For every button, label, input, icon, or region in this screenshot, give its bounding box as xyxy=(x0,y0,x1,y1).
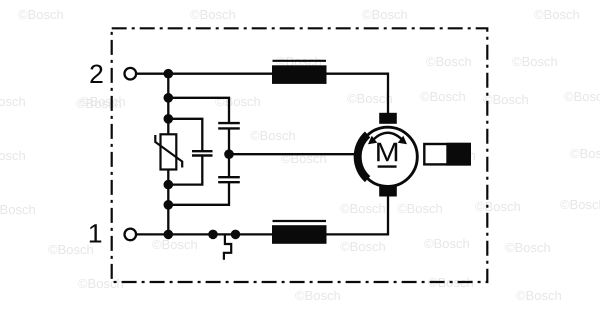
junction node C1 lower link xyxy=(164,180,174,190)
motor letter M xyxy=(377,143,397,162)
chassis step contact xyxy=(224,234,231,259)
wire: upper link to capacitor C1 xyxy=(168,119,202,151)
junction node suppression tap xyxy=(224,149,234,159)
wire: capacitor column mid segment xyxy=(228,128,230,177)
junction node upper cap link xyxy=(164,93,174,103)
choke L2 body xyxy=(272,225,327,244)
motor rotation arrow xyxy=(368,133,407,144)
terminal 2 pin circle xyxy=(125,68,137,80)
terminal label 1 xyxy=(90,224,101,242)
terminal label 2 xyxy=(90,65,102,84)
motor brush bottom xyxy=(379,185,397,196)
junction node on top rail xyxy=(164,69,174,79)
wire: left vertical branch xyxy=(167,74,169,235)
choke L1 body xyxy=(272,65,327,84)
junction node chassis left xyxy=(208,230,218,240)
wire: bottom rail from terminal 1 to motor corner xyxy=(137,196,388,234)
motor magnet segment xyxy=(358,135,368,180)
junction node lower cap link xyxy=(164,200,174,210)
motor underline xyxy=(378,165,397,167)
junction node chassis right xyxy=(231,230,241,240)
wire: lower link from capacitor C1 xyxy=(168,156,202,185)
choke L1 core line xyxy=(273,60,327,62)
wire: upper link to capacitor column xyxy=(168,98,229,123)
wire: lower link to capacitor column xyxy=(168,182,229,205)
motor M circle xyxy=(358,127,417,186)
junction node C1 upper link xyxy=(164,114,174,124)
capacitor C1 xyxy=(192,151,213,155)
junction node on bottom rail left xyxy=(164,230,174,240)
connector plug symbol xyxy=(424,143,470,166)
terminal 1 pin circle xyxy=(125,229,137,241)
wire: top rail from terminal 2 to motor corner xyxy=(137,74,388,113)
wire: suppression tap to motor housing xyxy=(229,153,357,155)
varistor R1 diagonal stroke xyxy=(155,135,182,168)
capacitor C2 xyxy=(218,123,240,128)
motor brush top xyxy=(379,113,397,124)
varistor R1 body xyxy=(161,134,177,169)
choke L2 core line xyxy=(273,220,327,222)
capacitor C3 xyxy=(218,177,240,182)
